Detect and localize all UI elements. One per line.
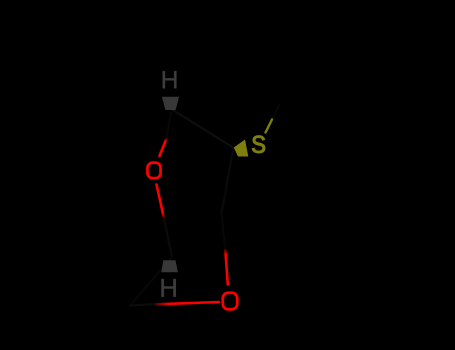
bond C5-C2 — [172, 110, 234, 149]
bond C5-O1 red half — [160, 139, 167, 157]
bond C6-O2 left half (carbon side) — [130, 304, 158, 306]
bond O1-C1 red half — [157, 185, 164, 218]
atom H on C1 — [162, 279, 176, 297]
bond C6-O2 red half — [156, 302, 219, 304]
wire — [130, 105, 280, 306]
bond O2-C3 red half — [225, 250, 228, 285]
atom S — [252, 136, 265, 153]
bond C3-C2 — [222, 150, 234, 214]
atom O2 — [223, 293, 238, 310]
bond C1-C6 — [130, 257, 172, 306]
wire red — [156, 139, 228, 305]
bold wedge C2-S — [234, 140, 249, 157]
atom O1 — [147, 163, 160, 179]
hash wedge H on C1 — [161, 260, 178, 272]
bond C5-O1 upper half (carbon side) — [167, 112, 172, 139]
atom H on C5 — [163, 71, 177, 88]
bond S wedge olive half — [266, 120, 273, 133]
bond O1-C1 lower half (carbon side) — [164, 218, 172, 258]
hash wedge H on C5 — [162, 97, 179, 110]
bond O2-C3 upper half (carbon side) — [222, 214, 226, 252]
bond S-CH3 outer half (carbon side) — [272, 105, 280, 120]
